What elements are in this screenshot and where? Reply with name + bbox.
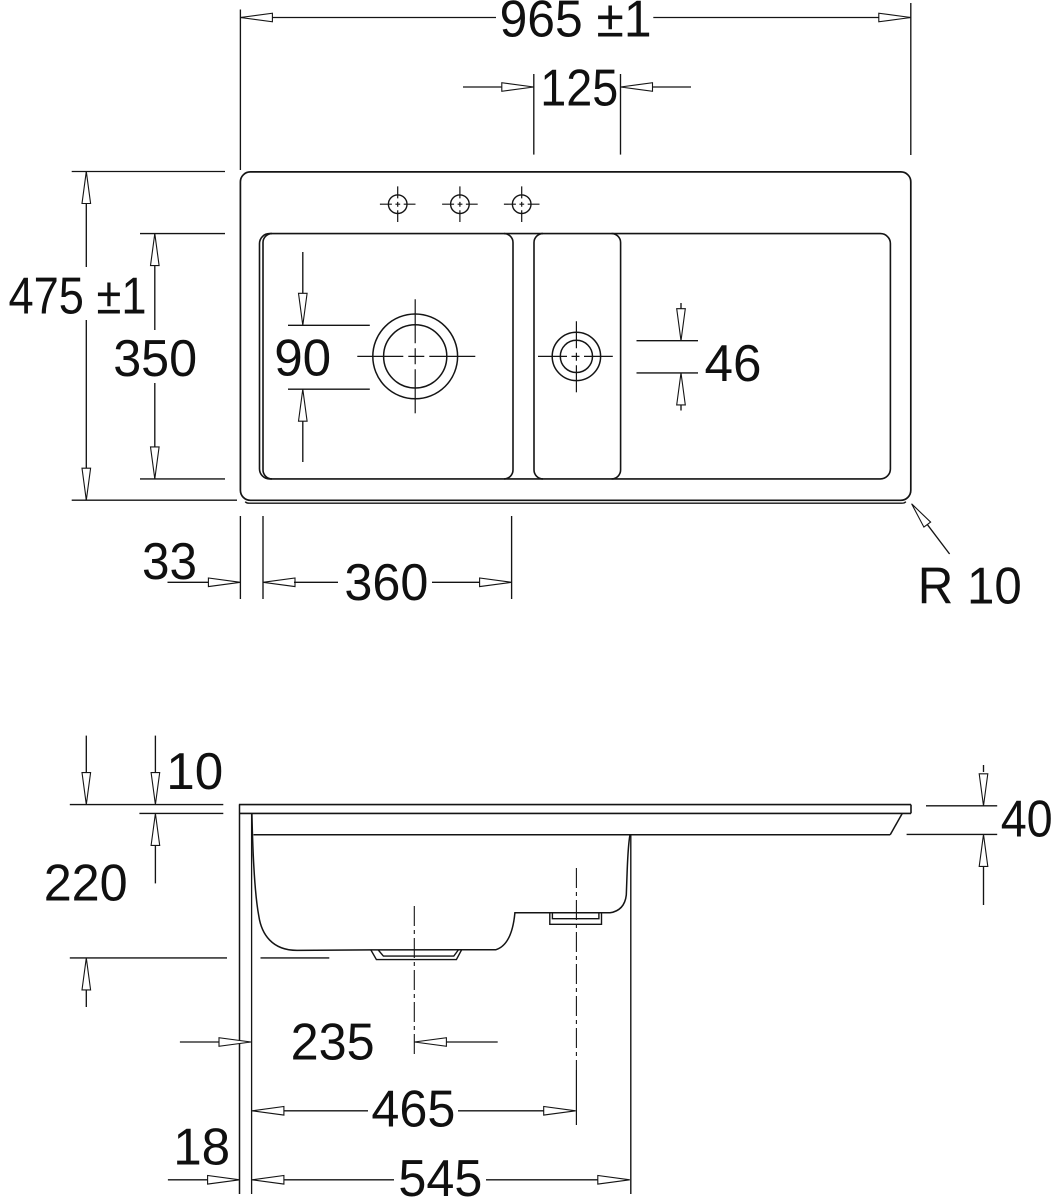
svg-text:18: 18 [173, 1117, 230, 1175]
dimension 125 middle bowl width [533, 74, 535, 155]
section: middle bowl right outer wall / extension [630, 835, 632, 1194]
tap hole 1 [388, 195, 407, 214]
section: rim right end cap [910, 805, 912, 814]
section: bowl inner profile [252, 813, 630, 950]
svg-text:545: 545 [398, 1149, 482, 1200]
dimension 545 bowl unit width [252, 1176, 284, 1185]
svg-text:125: 125 [540, 59, 618, 117]
section: left drain recess inner [378, 950, 458, 956]
left bowl drain outer circle [373, 314, 458, 399]
left bowl left edge [263, 234, 272, 479]
section: recess floor line depth 40 [254, 834, 891, 836]
svg-text:360: 360 [344, 553, 428, 611]
dimension 465 middle drain offset [252, 1107, 284, 1116]
svg-text:465: 465 [371, 1080, 455, 1138]
left bowl drain inner circle d90 [384, 325, 447, 388]
divider: middle bowl left edge [534, 234, 543, 479]
svg-text:33: 33 [142, 532, 197, 590]
svg-text:475 ±1: 475 ±1 [9, 266, 147, 324]
top view: inner recess outline [260, 234, 891, 479]
dimension 40 drainer depth [926, 805, 997, 807]
svg-text:90: 90 [274, 329, 331, 387]
section: rim bottom edge [139, 812, 223, 814]
svg-text:R 10: R 10 [918, 556, 1022, 614]
left drain crosshair [414, 299, 416, 414]
svg-text:46: 46 [705, 334, 762, 392]
dimension 360 left bowl width [511, 516, 513, 599]
section: bowl outer bottom [261, 957, 330, 959]
section: middle drain recess inner [552, 913, 599, 919]
divider: left bowl right edge [504, 234, 513, 479]
dimension 965 +-1 overall width [239, 10, 241, 171]
svg-text:965 ±1: 965 ±1 [500, 0, 652, 48]
svg-text:10: 10 [166, 742, 223, 800]
section: middle drain recess outer [550, 913, 602, 925]
dimension 475 +-1 overall depth [72, 171, 225, 173]
svg-text:220: 220 [44, 854, 128, 912]
dimension 350 bowl depth [140, 233, 225, 235]
dimension 235 drain offset [180, 1041, 219, 1043]
section: left drain centerline [413, 906, 415, 1058]
middle bowl drain inner circle d46 [560, 340, 592, 372]
tap hole 2 [451, 195, 470, 214]
svg-text:40: 40 [1001, 790, 1053, 848]
section: drainer right slope [890, 813, 902, 834]
section: left inner extension line [251, 813, 253, 1194]
section: middle drain centerline [575, 868, 577, 1070]
dimension 33 rim offset [239, 516, 241, 599]
svg-text:350: 350 [113, 329, 197, 387]
section: rim top surface [70, 804, 224, 806]
sink rim lower edge line [245, 502, 906, 504]
top view: outer sink outline 965x475 [240, 172, 910, 500]
svg-text:235: 235 [291, 1013, 375, 1071]
section: left outer wall / extension [239, 805, 241, 1194]
dimension 220 bowl depth [85, 736, 87, 773]
leader R 10 corner radius [921, 516, 950, 554]
dimension 90 drain diameter [288, 324, 370, 326]
dimension 18 wall thickness [168, 1179, 208, 1181]
dimension 10 rim thickness [154, 736, 156, 773]
tap hole 3 [512, 195, 531, 214]
section: left drain recess outer [371, 950, 462, 960]
middle drain crosshair [575, 321, 577, 393]
middle bowl drain outer circle [552, 332, 600, 380]
divider: middle bowl right edge [612, 234, 621, 479]
dimension 46 middle drain diameter [637, 340, 699, 342]
